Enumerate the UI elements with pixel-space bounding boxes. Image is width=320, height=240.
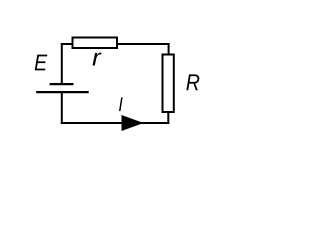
wire: top horizontal from resistor r to top-right corner [117, 43, 170, 45]
wire: top-right vertical down to resistor R top terminal [168, 43, 170, 55]
label r (internal resistance) [93, 53, 102, 66]
battery cell: long bottom plate (positive terminal) [36, 91, 88, 93]
battery cell: short top plate (negative terminal) [50, 83, 74, 85]
label I (current) [119, 97, 123, 111]
wire: resistor R bottom terminal down to bottom-right corner [167, 112, 169, 124]
wire: left vertical from top-left corner down to battery top plate [61, 43, 63, 84]
resistor r (box) [73, 38, 118, 49]
label E (emf of cell) [35, 55, 48, 71]
wire: from battery bottom plate down to bottom-left corner [61, 92, 63, 124]
resistor R (box) [163, 55, 174, 113]
wire: top horizontal segment from corner to resistor r left terminal [61, 43, 72, 45]
wire: bottom horizontal from battery branch to resistor R branch [61, 122, 170, 124]
current arrow (direction of I, pointing right) [122, 115, 144, 131]
label R [186, 74, 199, 90]
